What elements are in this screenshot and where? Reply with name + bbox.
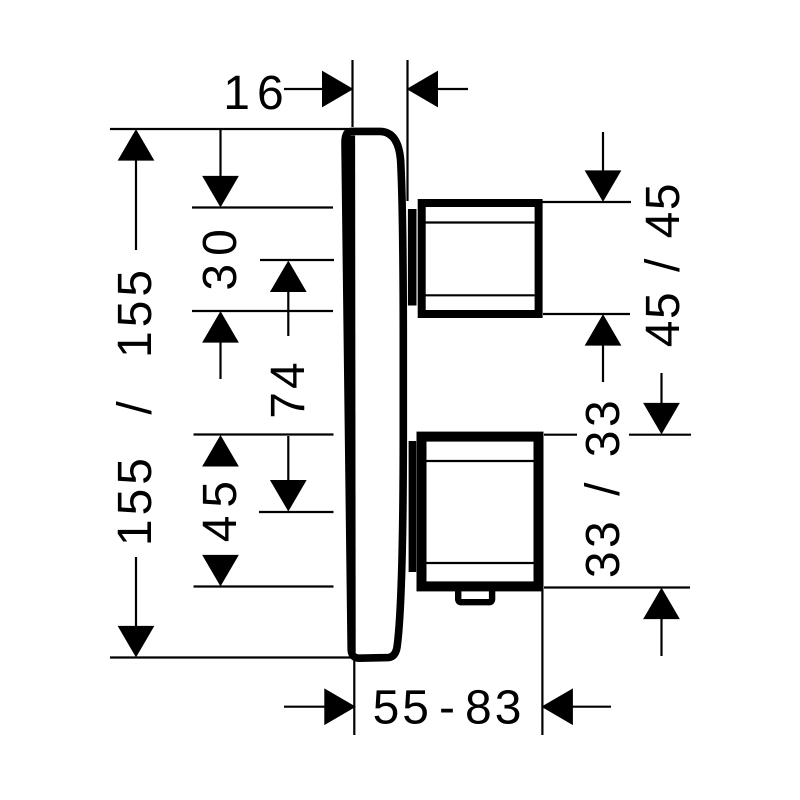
- arrowhead 74 up: [271, 262, 306, 292]
- dimension line 74 upper: [287, 291, 289, 337]
- faceplate escutcheon (side view): [345, 131, 403, 658]
- arrowhead 30 down: [203, 176, 238, 206]
- extension line lower knob top (right) seg1: [544, 434, 577, 436]
- arrowhead 45 down: [203, 555, 238, 585]
- dimension line 74 lower: [287, 436, 289, 480]
- faceplate back-edge thickening: [347, 136, 355, 653]
- extension line lower knob bottom (left): [194, 585, 334, 587]
- lower handle grip line top: [424, 460, 535, 462]
- dimension line 30 upper: [219, 130, 221, 178]
- extension line plate front (16 right): [406, 60, 408, 201]
- arrowhead 16 left-pointing: [408, 72, 438, 107]
- arrowhead 16 right-pointing: [323, 72, 353, 107]
- upper handle grip line top: [426, 221, 535, 223]
- dimension line 16: [284, 88, 324, 90]
- svg-text:45 / 45: 45 / 45: [637, 182, 690, 347]
- svg-text:33 / 33: 33 / 33: [577, 397, 630, 578]
- arrowhead 45/45 up: [586, 315, 621, 345]
- arrowhead 30 up: [203, 312, 238, 342]
- extension line upper knob axis: [260, 259, 334, 261]
- dimension line 155 upper segment: [135, 159, 137, 250]
- svg-text:16: 16: [223, 67, 290, 120]
- arrowhead 33/33 down: [644, 403, 679, 433]
- upper handle body: [422, 203, 539, 314]
- dimension line 155 lower segment: [135, 557, 137, 628]
- svg-text:74: 74: [262, 359, 315, 418]
- dimension line 45/45 upper tail: [602, 132, 604, 172]
- arrowhead 33/33 up: [644, 589, 679, 619]
- extension line 55-83 left: [353, 658, 355, 735]
- arrowhead 155 down: [119, 626, 154, 656]
- extension line lower knob bottom (right): [544, 586, 690, 588]
- arrowhead 45 up: [203, 436, 238, 466]
- extension line plate top: [110, 128, 348, 130]
- dimension line 45/45 lower tail: [602, 344, 604, 382]
- extension line upper knob bottom (right): [543, 313, 630, 315]
- svg-text:55 - 83: 55 - 83: [373, 682, 525, 735]
- extension line lower knob top (right) seg2: [629, 434, 691, 436]
- extension line upper knob bottom (left): [192, 310, 333, 312]
- dimension tail 16 right: [437, 88, 469, 90]
- extension line upper knob top (right): [541, 201, 631, 203]
- lower handle body: [422, 437, 539, 587]
- extension line upper knob top (left): [192, 206, 333, 208]
- arrowhead 55-83 left-pointing: [542, 689, 572, 724]
- dimension tail 55-83 right: [572, 706, 611, 708]
- lower handle stem: [409, 441, 417, 572]
- lower handle lever tab: [458, 590, 492, 602]
- svg-text:30: 30: [194, 221, 247, 290]
- dimension line 30 lower tail: [219, 341, 221, 379]
- svg-text:155 / 155: 155 / 155: [109, 266, 162, 546]
- extension line plate bottom: [110, 656, 351, 658]
- dimension line 33/33 lower tail: [660, 618, 662, 657]
- upper handle grip line bottom: [426, 294, 535, 296]
- arrowhead 55-83 right-pointing: [325, 689, 355, 724]
- extension line wall plane (16 left): [351, 60, 353, 127]
- dimension line 33/33 upper tail: [660, 373, 662, 405]
- extension line lower knob top (left): [194, 433, 334, 435]
- svg-text:45: 45: [194, 473, 247, 542]
- arrowhead 74 down: [271, 481, 306, 511]
- extension line 55-83 right: [541, 590, 543, 735]
- upper handle stem: [408, 209, 417, 306]
- dimension tail 55-83 left: [284, 706, 326, 708]
- arrowhead 155 up: [119, 130, 154, 160]
- lower handle grip line bottom: [424, 562, 535, 564]
- arrowhead 45/45 down: [586, 171, 621, 201]
- extension line lower knob axis: [259, 511, 334, 513]
